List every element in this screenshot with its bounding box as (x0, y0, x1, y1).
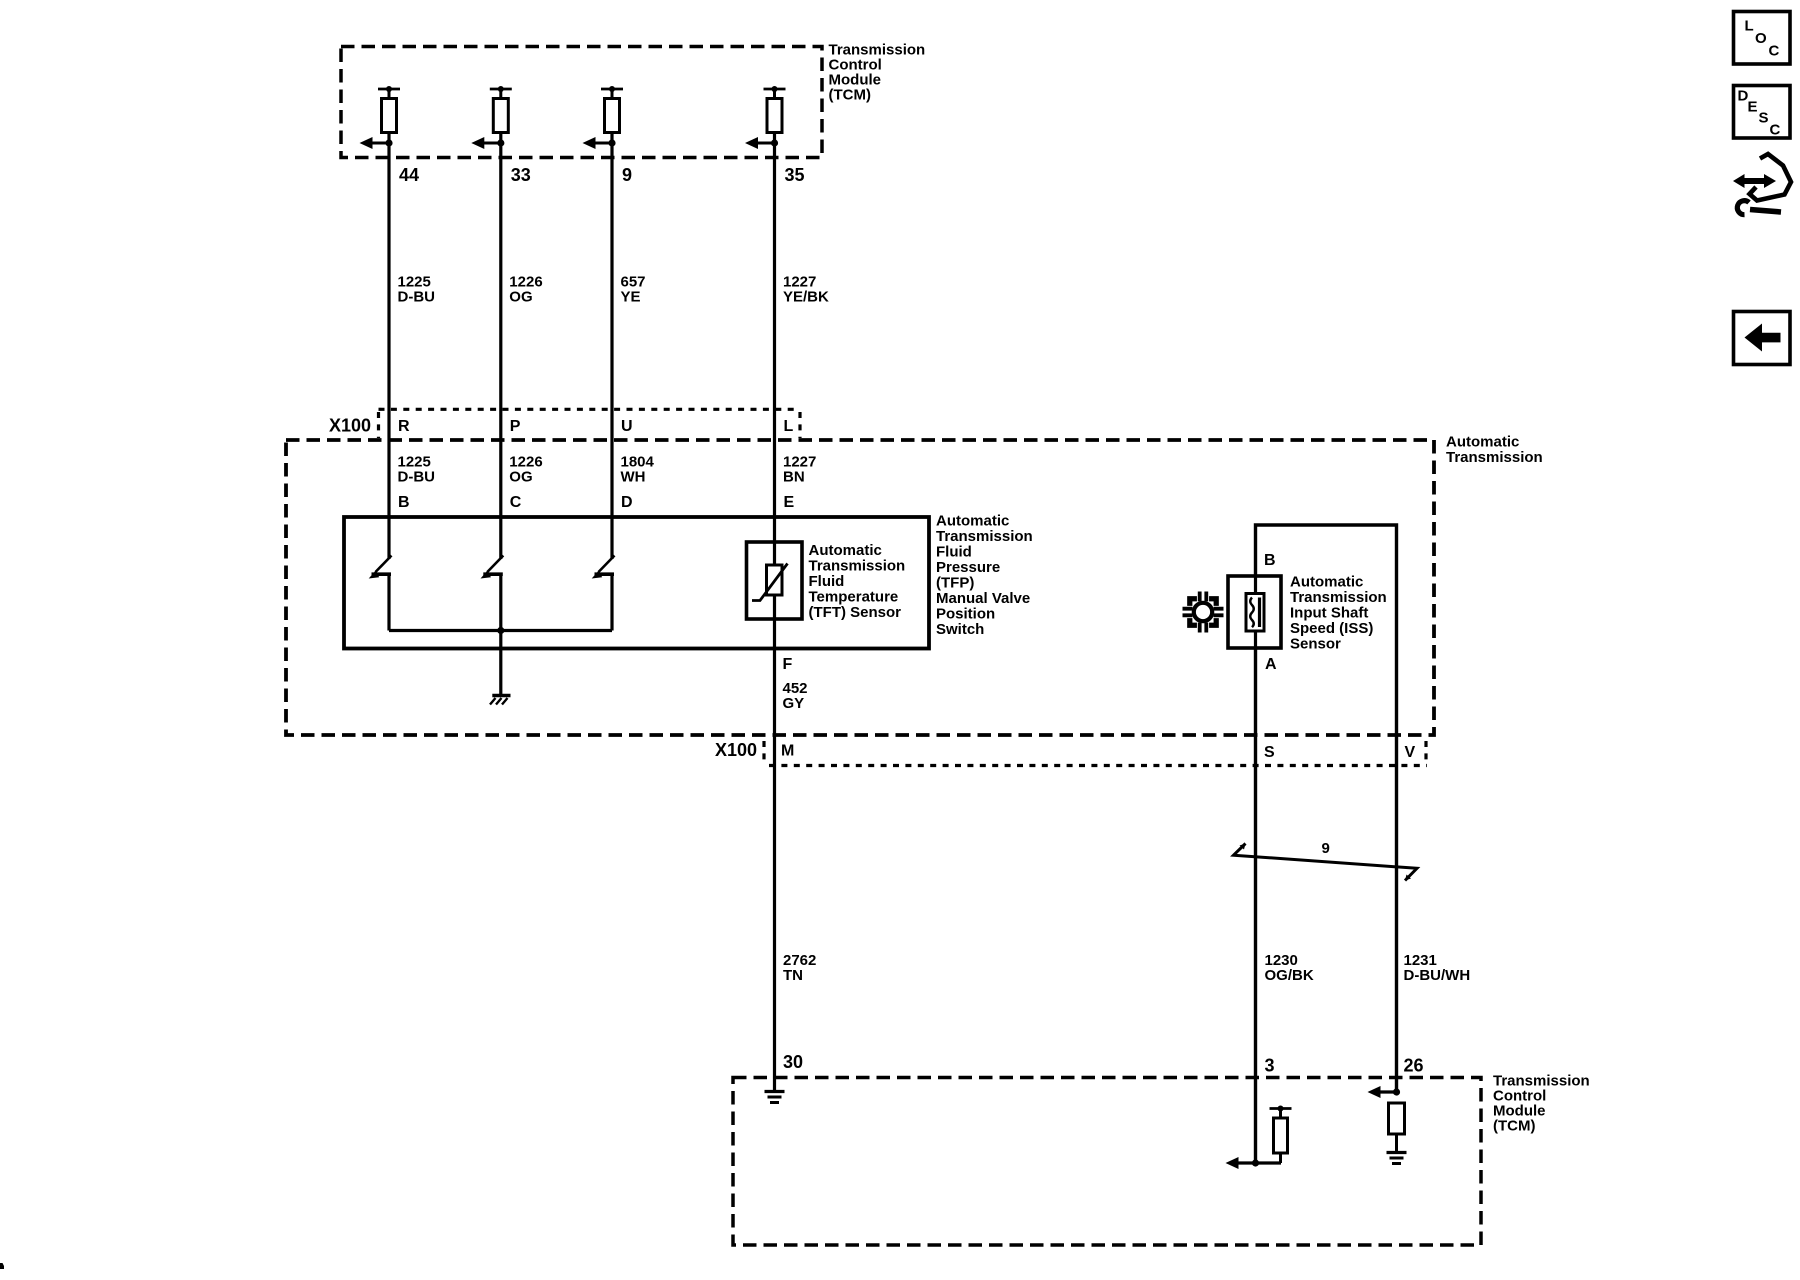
ground (TCM pin 26, earth) (1387, 1153, 1407, 1164)
svg-text:Automatic: Automatic (1446, 434, 1519, 451)
svg-text:YE: YE (621, 289, 641, 306)
svg-text:V: V (1405, 744, 1416, 761)
svg-text:OG: OG (509, 289, 532, 306)
wire label 1225 D-BU (398, 274, 436, 306)
svg-text:L: L (784, 418, 794, 435)
junction dot (pin 26 branch) (1393, 1088, 1400, 1095)
svg-text:U: U (621, 418, 633, 435)
svg-text:WH: WH (621, 469, 646, 486)
wire label 1230 OG/BK (1265, 952, 1314, 984)
wire: TFT sensor to X100 M (452 GY) (773, 619, 776, 1091)
wire: ISS sensor B terminal loop to TCM pin 26 (1256, 525, 1397, 1092)
svg-text:D-BU: D-BU (398, 289, 436, 306)
component box: TFP Manual Valve Position Switch (344, 517, 929, 649)
svg-text:P: P (510, 418, 521, 435)
module box: Transmission Control Module (TCM) bottom (733, 1078, 1481, 1246)
svg-text:E: E (784, 494, 795, 511)
svg-text:X100: X100 (715, 740, 757, 760)
svg-text:35: 35 (785, 165, 805, 185)
svg-text:Input Shaft: Input Shaft (1290, 605, 1368, 622)
svg-text:B: B (1264, 552, 1276, 569)
svg-text:30: 30 (783, 1052, 803, 1072)
wire label 1226 OG (transmission side) (509, 454, 542, 486)
svg-text:9: 9 (1322, 840, 1330, 857)
svg-text:OG/BK: OG/BK (1265, 967, 1314, 984)
svg-text:Automatic: Automatic (1290, 574, 1363, 591)
wire: switch to common bus (610, 574, 613, 631)
svg-text:(TCM): (TCM) (1493, 1118, 1535, 1135)
svg-text:A: A (1265, 656, 1277, 673)
junction dot below resistor pin 44 (385, 139, 392, 146)
pin number 33 (TCM) (511, 165, 531, 185)
svg-text:L: L (1745, 18, 1754, 35)
speed sensor: ISS pickup (1228, 576, 1281, 648)
wire label 1226 OG (509, 274, 542, 306)
pin number 44 (TCM) (399, 165, 419, 185)
svg-text:Transmission: Transmission (936, 528, 1033, 545)
wire: TCM pin 33 down to TFP switch (1226 OG) (499, 133, 502, 560)
page artifact mark (bottom left) (0, 1263, 4, 1269)
svg-text:C: C (510, 494, 522, 511)
svg-text:Position: Position (936, 606, 995, 623)
connector X100 (upper) (379, 409, 801, 438)
svg-text:YE/BK: YE/BK (783, 289, 829, 306)
pin letter E (TFP switch) (784, 494, 795, 511)
wire: TCM pin 9 down to TFP switch (657 YE) (610, 133, 613, 560)
switch contact (pin C) (481, 556, 504, 579)
svg-text:Transmission: Transmission (809, 558, 906, 575)
wire: TCM pin 35 down to TFP switch (1227 YE/BK) (773, 133, 776, 543)
label: Transmission Control Module (TCM) top (829, 42, 926, 104)
wire: TCM pin 44 down to TFP switch (1225 D-BU) (387, 133, 390, 560)
svg-text:O: O (1755, 30, 1767, 47)
pin number 26 (TCM) (1404, 1056, 1424, 1076)
pin letter F (TFT sensor) (783, 656, 793, 673)
wire label 2762 TN (783, 952, 816, 984)
junction dot below resistor pin 35 (771, 139, 778, 146)
resistor (TCM pin 26 termination) (1389, 1103, 1405, 1151)
arrow (signal out of TCM pin 35) (745, 137, 775, 149)
svg-text:(TCM): (TCM) (829, 87, 871, 104)
svg-text:Automatic: Automatic (809, 542, 882, 559)
svg-text:E: E (1748, 99, 1758, 116)
svg-text:D-BU: D-BU (398, 469, 436, 486)
svg-text:X100: X100 (329, 416, 371, 436)
label: X100 (upper) (329, 416, 371, 436)
svg-text:C: C (1769, 43, 1780, 60)
svg-text:F: F (783, 656, 793, 673)
connector X100 (lower) (764, 741, 1427, 766)
wire label 1225 D-BU (transmission side) (398, 454, 436, 486)
ground (TCM pin 30, earth) (765, 1092, 785, 1103)
resistor in TCM (pin 35 circuit) (764, 86, 786, 133)
pin letter M (X100 lower) (781, 743, 794, 760)
svg-text:Fluid: Fluid (809, 573, 845, 590)
pin letter A (ISS sensor) (1265, 656, 1277, 673)
ground (TFP switch common, chassis) (490, 696, 511, 705)
svg-text:R: R (398, 418, 410, 435)
junction dot below resistor pin 9 (608, 139, 615, 146)
svg-text:Temperature: Temperature (809, 589, 899, 606)
svg-text:Transmission: Transmission (1446, 449, 1543, 466)
arrow (signal out of TCM pin 33) (471, 137, 501, 149)
label: 9 (twisted pair) (1322, 840, 1330, 857)
pin letter P (X100 upper) (510, 418, 521, 435)
svg-text:D-BU/WH: D-BU/WH (1404, 967, 1471, 984)
svg-text:Fluid: Fluid (936, 544, 972, 561)
svg-text:S: S (1759, 110, 1769, 127)
pin number 9 (TCM) (622, 165, 632, 185)
label: Automatic Transmission Input Shaft Speed (ISS) Sensor (1290, 574, 1387, 653)
icon: arrows and wrench (1733, 154, 1791, 215)
svg-text:26: 26 (1404, 1056, 1424, 1076)
svg-text:C: C (1770, 122, 1781, 139)
pin letter V (X100 lower) (1405, 744, 1416, 761)
wire: switch common bus (389, 629, 612, 632)
junction dot on bus (497, 627, 504, 634)
label: Automatic Transmission (1446, 434, 1543, 467)
pin letter R (X100 upper) (398, 418, 410, 435)
gear symbol (input shaft) (1182, 591, 1223, 632)
module box: Automatic Transmission (286, 440, 1434, 735)
wire label 452 GY (783, 680, 808, 712)
twisted-pair marker (circuit 9) (1234, 844, 1418, 881)
switch contact (pin B) (369, 556, 392, 579)
svg-text:GY: GY (783, 695, 805, 712)
svg-text:9: 9 (622, 165, 632, 185)
resistor in TCM (pin 9 circuit) (601, 86, 623, 133)
pin letter U (X100 upper) (621, 418, 633, 435)
resistor in TCM (pin 44 circuit) (378, 86, 400, 133)
svg-text:Speed (ISS): Speed (ISS) (1290, 620, 1373, 637)
switch contact (pin D) (592, 556, 615, 579)
label: Transmission Control Module (TCM) bottom (1493, 1073, 1590, 1135)
svg-text:M: M (781, 743, 794, 760)
svg-text:B: B (398, 494, 410, 511)
wire label 1227 BN (transmission side) (783, 454, 816, 486)
pin number 30 (TCM) (783, 1052, 803, 1072)
resistor (TCM pin 3 termination) (1270, 1106, 1292, 1164)
svg-text:44: 44 (399, 165, 419, 185)
svg-text:3: 3 (1265, 1056, 1275, 1076)
pin number 3 (TCM) (1265, 1056, 1275, 1076)
arrow (signal into TCM pin 3) (1226, 1157, 1282, 1169)
svg-text:BN: BN (783, 469, 805, 486)
icon: DESC box (1734, 86, 1791, 139)
svg-text:33: 33 (511, 165, 531, 185)
pin letter S (X100 lower) (1264, 744, 1275, 761)
pin letter L (X100 upper) (784, 418, 794, 435)
wire label 1804 WH (transmission side) (621, 454, 655, 486)
junction dot below resistor pin 33 (497, 139, 504, 146)
wire label 1231 D-BU/WH (1404, 952, 1471, 984)
arrow (signal out of TCM pin 9) (583, 137, 613, 149)
svg-text:S: S (1264, 744, 1275, 761)
svg-text:Transmission: Transmission (1290, 589, 1387, 606)
wire label 657 YE (621, 274, 646, 306)
svg-text:(TFT) Sensor: (TFT) Sensor (809, 604, 902, 621)
wire: ISS sensor A to TCM pin 3 (1254, 648, 1257, 1163)
junction dot (pin 3 branch) (1252, 1159, 1259, 1166)
label: Automatic Transmission Fluid Pressure (TFP) Manual Valve Position Switch (936, 513, 1033, 639)
module box: Transmission Control Module (TCM) top (341, 47, 822, 158)
svg-text:Sensor: Sensor (1290, 636, 1341, 653)
arrow (signal out of TCM pin 44) (360, 137, 390, 149)
svg-text:Automatic: Automatic (936, 513, 1009, 530)
pin letter D (TFP switch) (621, 494, 633, 511)
svg-text:Pressure: Pressure (936, 559, 1000, 576)
svg-text:D: D (621, 494, 633, 511)
wire label 1227 YE/BK (783, 274, 829, 306)
icon: LOC box (1734, 12, 1791, 65)
svg-text:TN: TN (783, 967, 803, 984)
arrow (signal into TCM pin 26) (1368, 1086, 1397, 1098)
wire: switch to common bus (387, 574, 390, 631)
pin letter C (TFP switch) (510, 494, 522, 511)
svg-text:OG: OG (509, 469, 532, 486)
svg-text:Switch: Switch (936, 621, 984, 638)
pin number 35 (TCM) (785, 165, 805, 185)
resistor in TCM (pin 33 circuit) (490, 86, 512, 133)
svg-text:(TFP): (TFP) (936, 575, 974, 592)
label: Automatic Transmission Fluid Temperature (TFT) Sensor (809, 542, 906, 621)
thermistor: TFT sensor (747, 542, 803, 619)
label: X100 (lower) (715, 740, 757, 760)
svg-text:Manual Valve: Manual Valve (936, 590, 1030, 607)
wire: bus to ground (499, 574, 502, 694)
icon: back arrow box (1734, 312, 1791, 365)
pin letter B (TFP switch) (398, 494, 410, 511)
pin letter B (ISS sensor) (1264, 552, 1276, 569)
